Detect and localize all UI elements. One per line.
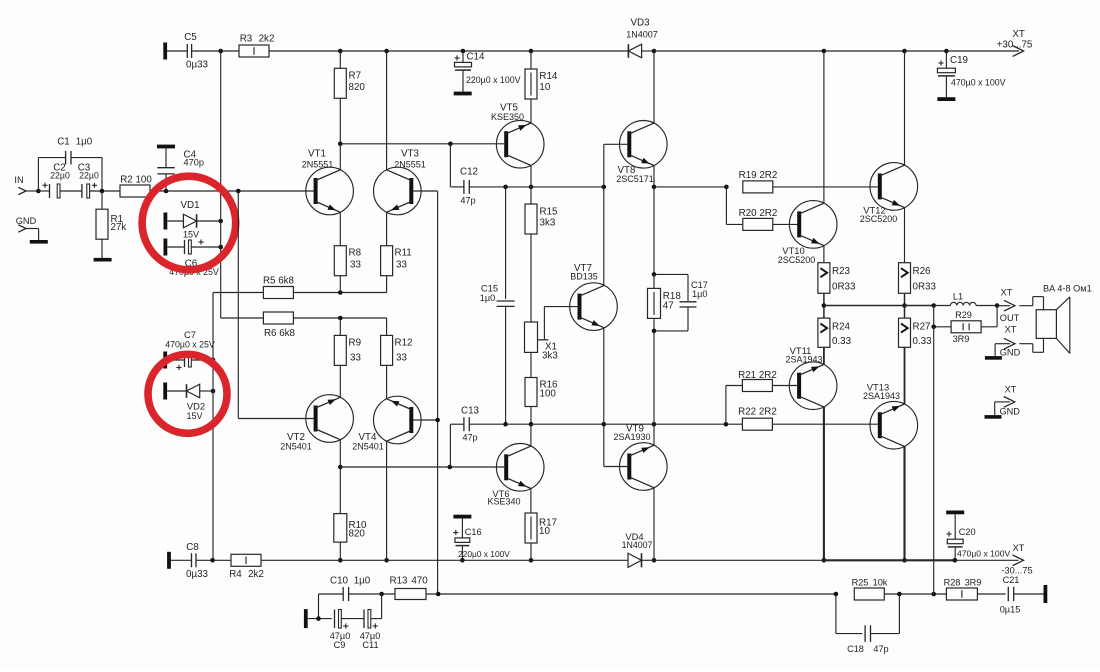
wire (60, 190, 82, 192)
resistor R28 (944, 578, 982, 600)
svg-text:VD1: VD1 (180, 200, 199, 211)
capacitor C6 (164, 239, 221, 277)
svg-text:470: 470 (411, 576, 428, 587)
wire (824, 305, 934, 307)
capacitor C2 (42, 163, 70, 199)
junction (218, 245, 223, 250)
svg-text:C19: C19 (950, 55, 968, 66)
junction (724, 422, 729, 427)
svg-text:R2 100: R2 100 (120, 175, 152, 186)
wire (530, 407, 532, 425)
junction (164, 189, 169, 194)
svg-text:C10: C10 (330, 576, 349, 587)
resistor R17 (525, 513, 557, 543)
svg-text:0R33: 0R33 (832, 281, 856, 292)
junction (931, 303, 936, 308)
junction (338, 290, 343, 295)
wire (823, 407, 825, 560)
wire C1 branch down (71, 158, 102, 191)
svg-text:+30...75: +30...75 (997, 40, 1033, 51)
junction (338, 142, 343, 147)
capacitor C7 (163, 329, 215, 370)
wire (1014, 593, 1044, 595)
junction (461, 49, 466, 54)
wire (261, 559, 340, 561)
wire (387, 50, 463, 52)
transistor VT10 (778, 201, 837, 265)
resistor R12 (381, 335, 413, 365)
junction (529, 558, 534, 563)
resistor R9 (334, 335, 361, 365)
wire R20 branch (726, 187, 742, 225)
wire (530, 165, 532, 187)
wire (339, 144, 341, 170)
junction (902, 49, 907, 54)
junction (529, 49, 534, 54)
svg-text:VT3: VT3 (401, 149, 420, 160)
red highlight circle around VD2 (148, 354, 227, 433)
wire (426, 593, 836, 595)
junction (338, 49, 343, 54)
wire VT8 base elbow (604, 144, 628, 187)
junction (652, 185, 657, 190)
wire (530, 543, 532, 560)
diode VD2 (163, 383, 213, 422)
svg-text:KSE340: KSE340 (487, 497, 520, 507)
transistor VT1 (302, 149, 354, 215)
svg-text:2SC5200: 2SC5200 (778, 255, 816, 265)
junction (448, 142, 453, 147)
wire (531, 50, 628, 52)
svg-text:3k3: 3k3 (540, 217, 556, 228)
capacitor C10 (330, 576, 371, 601)
junction (822, 558, 827, 563)
wire output feedback vertical (933, 327, 935, 594)
svg-text:R25: R25 (852, 578, 869, 588)
wire (653, 424, 655, 445)
capacitor C4 (157, 145, 204, 191)
wire (269, 50, 340, 52)
junction (931, 592, 936, 597)
svg-text:R9: R9 (349, 337, 362, 348)
wire (823, 293, 825, 305)
svg-text:R29: R29 (955, 310, 972, 320)
trimmer X1 (525, 307, 578, 362)
svg-text:R26: R26 (913, 266, 932, 277)
svg-text:220µ0 x 100V: 220µ0 x 100V (466, 75, 521, 85)
wire (339, 276, 341, 293)
resistor R22 (738, 407, 777, 431)
wire (981, 306, 997, 327)
resistor R3 (239, 34, 274, 58)
wire (903, 446, 905, 560)
svg-text:0µ33: 0µ33 (186, 569, 209, 580)
svg-text:R27: R27 (913, 322, 931, 333)
junction (338, 316, 343, 321)
wire to -V terminal with arrow (955, 555, 1024, 566)
wire (506, 423, 531, 425)
svg-text:R11: R11 (395, 248, 412, 259)
wire C10 left elbow (319, 594, 344, 619)
junction (652, 329, 657, 334)
wire (463, 50, 531, 52)
label XT -30...75 (1001, 543, 1032, 576)
svg-text:IN: IN (14, 175, 23, 185)
capacitor C8 (167, 542, 208, 580)
capacitor C14 (454, 51, 521, 95)
capacitor C5 (163, 32, 208, 71)
svg-text:820: 820 (349, 528, 366, 539)
svg-text:1µ0: 1µ0 (480, 293, 496, 303)
transistor VT12 (860, 163, 918, 224)
svg-text:1N4007: 1N4007 (622, 540, 653, 550)
junction (448, 465, 453, 470)
svg-text:2N5401: 2N5401 (280, 441, 312, 451)
resistor R11 (381, 246, 412, 276)
speaker BA (1019, 284, 1091, 354)
junction (529, 185, 534, 190)
transistor VT13 (863, 381, 918, 449)
wire (339, 365, 341, 397)
wire (653, 331, 655, 424)
resistor R20 (739, 208, 778, 231)
capacitor C1 (57, 137, 93, 165)
svg-text:VD3: VD3 (630, 18, 650, 29)
svg-text:C9: C9 (334, 640, 346, 650)
wire (642, 50, 654, 52)
svg-text:0R33: 0R33 (913, 281, 937, 292)
svg-text:GND: GND (999, 407, 1020, 417)
input terminal GND (16, 216, 37, 232)
svg-text:820: 820 (349, 82, 366, 93)
wire net from R5 down to bottom rail (212, 293, 214, 561)
capacitor C21 (1000, 575, 1021, 615)
junction (652, 558, 657, 563)
junction (822, 49, 827, 54)
resistor R19 (739, 170, 778, 193)
junction (211, 389, 216, 394)
svg-text:33: 33 (350, 260, 361, 271)
svg-text:XT: XT (1005, 325, 1017, 335)
transistor VT7 (570, 263, 618, 331)
wire (773, 223, 799, 225)
junction (902, 558, 907, 563)
resistor R15 (525, 187, 558, 234)
wire VT4 base (413, 419, 437, 421)
svg-text:R22 2R2: R22 2R2 (738, 407, 777, 418)
terminal XT GND to speaker (985, 325, 1021, 360)
wire (192, 50, 239, 52)
svg-text:VD2: VD2 (187, 401, 205, 412)
wire (293, 292, 386, 294)
junction (995, 303, 1000, 308)
wire VT3 collector to top rail (386, 51, 388, 170)
capacitor C13 (461, 405, 480, 442)
transistor VT3 (374, 149, 426, 215)
resistor R5 (263, 276, 295, 299)
wire mid node row (450, 424, 464, 467)
wire (165, 50, 187, 52)
transistor VT11 (785, 345, 836, 410)
junction (435, 418, 440, 423)
inductor L1 (950, 292, 976, 306)
svg-text:47: 47 (663, 301, 674, 312)
svg-text:2SA1943: 2SA1943 (863, 391, 900, 401)
terminal XT GND spare (985, 385, 1021, 419)
resistor R24 (818, 306, 852, 348)
wire (653, 51, 655, 123)
transistor VT4 (352, 396, 421, 451)
svg-text:2k2: 2k2 (259, 34, 275, 45)
wire (26, 190, 38, 192)
junction (652, 272, 657, 277)
resistor R6 (263, 312, 295, 339)
svg-text:C16: C16 (465, 527, 482, 537)
junction (724, 185, 729, 190)
resistor R16 (525, 352, 558, 406)
svg-text:0.33: 0.33 (913, 336, 933, 347)
wire (386, 318, 388, 335)
wire (904, 51, 906, 165)
junction (218, 219, 223, 224)
wire (531, 423, 604, 425)
wire (339, 542, 341, 560)
resistor R18 (648, 274, 682, 318)
svg-text:C5: C5 (184, 32, 197, 43)
svg-text:BA 4-8 Ом1: BA 4-8 Ом1 (1043, 284, 1092, 294)
resistor R8 (334, 246, 361, 276)
svg-text:0µ15: 0µ15 (1000, 605, 1021, 615)
junction (944, 49, 949, 54)
wire (469, 186, 505, 188)
wire (340, 559, 462, 561)
svg-text:XT: XT (1012, 29, 1025, 40)
svg-text:R5 6k8: R5 6k8 (263, 276, 295, 287)
input terminal IN (14, 175, 26, 195)
resistor R23 (818, 263, 856, 294)
terminal bar (1044, 585, 1048, 603)
junction (379, 592, 384, 597)
svg-text:C21: C21 (1003, 575, 1020, 585)
svg-text:220µ0 x 100V: 220µ0 x 100V (458, 549, 510, 559)
wire (824, 50, 905, 52)
svg-text:100: 100 (540, 389, 557, 400)
svg-text:C18: C18 (847, 644, 864, 654)
wire (654, 186, 726, 188)
wire (386, 276, 388, 293)
capacitor C9 (330, 610, 351, 651)
junction (529, 422, 534, 427)
wire (934, 305, 951, 307)
wire (308, 618, 332, 620)
junction (602, 185, 607, 190)
svg-text:2SA1943: 2SA1943 (785, 354, 822, 364)
transistor VT5 (491, 103, 544, 169)
junction (316, 616, 321, 621)
svg-text:R20 2R2: R20 2R2 (739, 208, 778, 219)
wire (904, 347, 906, 404)
svg-text:2k2: 2k2 (248, 569, 264, 580)
transistor VT9 (613, 424, 667, 491)
wire (506, 186, 531, 188)
junction (236, 189, 241, 194)
junction (338, 558, 343, 563)
wire (340, 50, 386, 52)
wire (905, 50, 947, 52)
junction (902, 303, 907, 308)
svg-text:3R9: 3R9 (953, 334, 970, 344)
junction (100, 189, 105, 194)
svg-text:R14: R14 (539, 71, 558, 82)
svg-text:1N4007: 1N4007 (626, 30, 658, 40)
wire (386, 365, 388, 398)
svg-text:15V: 15V (186, 411, 202, 421)
junction (931, 325, 936, 330)
wire (531, 186, 604, 188)
svg-text:R6 6k8: R6 6k8 (264, 328, 296, 339)
svg-text:R3: R3 (240, 34, 253, 45)
svg-text:47p: 47p (462, 432, 477, 442)
svg-text:L1: L1 (953, 292, 963, 302)
capacitor C17 (654, 274, 708, 331)
wire (823, 51, 825, 203)
wire (531, 559, 628, 561)
wire (642, 559, 655, 561)
svg-text:47p: 47p (873, 644, 888, 654)
wire (654, 559, 824, 561)
svg-text:3k3: 3k3 (542, 350, 558, 361)
svg-text:XT: XT (1013, 543, 1025, 553)
svg-text:C14: C14 (467, 52, 486, 63)
wire (530, 99, 532, 123)
svg-text:VT1: VT1 (308, 149, 326, 160)
wire (823, 246, 825, 263)
svg-text:XT: XT (1005, 385, 1017, 395)
resistor R10 (334, 514, 367, 543)
svg-text:R19 2R2: R19 2R2 (739, 170, 778, 181)
junction (460, 558, 465, 563)
junction (436, 592, 441, 597)
junction (210, 558, 215, 563)
capacitor C16 (453, 515, 510, 561)
transistor VT8 (616, 121, 667, 184)
svg-text:2SA1930: 2SA1930 (613, 432, 650, 442)
wire (386, 441, 388, 560)
capacitor C3 (78, 163, 99, 199)
wire (653, 488, 655, 561)
svg-text:R23: R23 (832, 266, 851, 277)
wire (772, 423, 877, 425)
wire (884, 593, 946, 595)
svg-text:-30...75: -30...75 (1001, 566, 1032, 576)
wire (462, 559, 531, 561)
resistor R21 (738, 370, 777, 392)
svg-text:C13: C13 (461, 405, 480, 416)
diode VD3 (626, 18, 658, 58)
svg-text:KSE350: KSE350 (491, 112, 524, 122)
svg-text:C8: C8 (186, 542, 199, 553)
wire R21 branch (726, 386, 743, 425)
svg-text:OUT: OUT (1000, 313, 1020, 323)
wire (976, 305, 997, 307)
capacitor C15 (480, 187, 515, 424)
svg-text:GND: GND (1000, 348, 1021, 358)
wire (773, 186, 878, 188)
ground (30, 240, 48, 244)
junction (211, 358, 216, 363)
svg-text:BD135: BD135 (570, 271, 598, 281)
wire (530, 489, 532, 514)
capacitor C12 (450, 144, 478, 206)
svg-text:10: 10 (539, 82, 550, 93)
wire (150, 190, 314, 192)
junction (822, 303, 827, 308)
resistor R4 (229, 554, 264, 580)
resistor R27 (899, 306, 933, 348)
svg-text:47p: 47p (460, 196, 475, 206)
junction (602, 422, 607, 427)
svg-text:15V: 15V (183, 230, 199, 240)
wire (339, 98, 341, 144)
svg-text:10k: 10k (873, 578, 888, 588)
resistor R1 (96, 191, 126, 258)
svg-text:10: 10 (539, 526, 550, 537)
svg-text:2N5551: 2N5551 (302, 160, 334, 170)
junction (953, 558, 958, 563)
wire net from C5 junction down to R6 (220, 51, 222, 318)
svg-text:R15: R15 (540, 206, 559, 217)
wire (221, 317, 264, 319)
wire (386, 212, 388, 246)
wire (340, 466, 504, 468)
svg-text:3R9: 3R9 (965, 578, 982, 588)
wire (654, 423, 742, 425)
terminal bar (304, 609, 308, 628)
junction (218, 49, 223, 54)
wire VT5 base row (340, 143, 506, 145)
wire (26, 229, 39, 241)
junction (897, 592, 902, 597)
svg-text:XT: XT (1001, 288, 1013, 298)
junction (384, 49, 389, 54)
capacitor C20 (946, 511, 1010, 561)
svg-text:C11: C11 (362, 640, 378, 650)
transistor VT2 (280, 395, 353, 452)
svg-text:R8: R8 (349, 248, 362, 259)
wire (339, 467, 341, 514)
wire (341, 618, 364, 620)
wire (349, 593, 395, 595)
wire VT2 base (238, 191, 313, 419)
wire C1 branch up (38, 158, 65, 191)
wire (653, 187, 655, 275)
wire (38, 190, 49, 192)
resistor R29 (951, 310, 981, 344)
svg-text:R12: R12 (395, 337, 413, 348)
svg-text:2SC5171: 2SC5171 (616, 174, 654, 184)
wire (371, 594, 382, 619)
svg-text:C20: C20 (959, 527, 976, 537)
junction (384, 558, 389, 563)
wire (772, 385, 799, 387)
capacitor C11 (360, 610, 381, 651)
svg-text:33: 33 (396, 260, 407, 271)
wire (339, 318, 341, 335)
resistor R7 (334, 68, 365, 98)
output terminal XT OUT (997, 288, 1019, 324)
wire R29 row (934, 306, 951, 327)
svg-text:R4: R4 (229, 569, 242, 580)
